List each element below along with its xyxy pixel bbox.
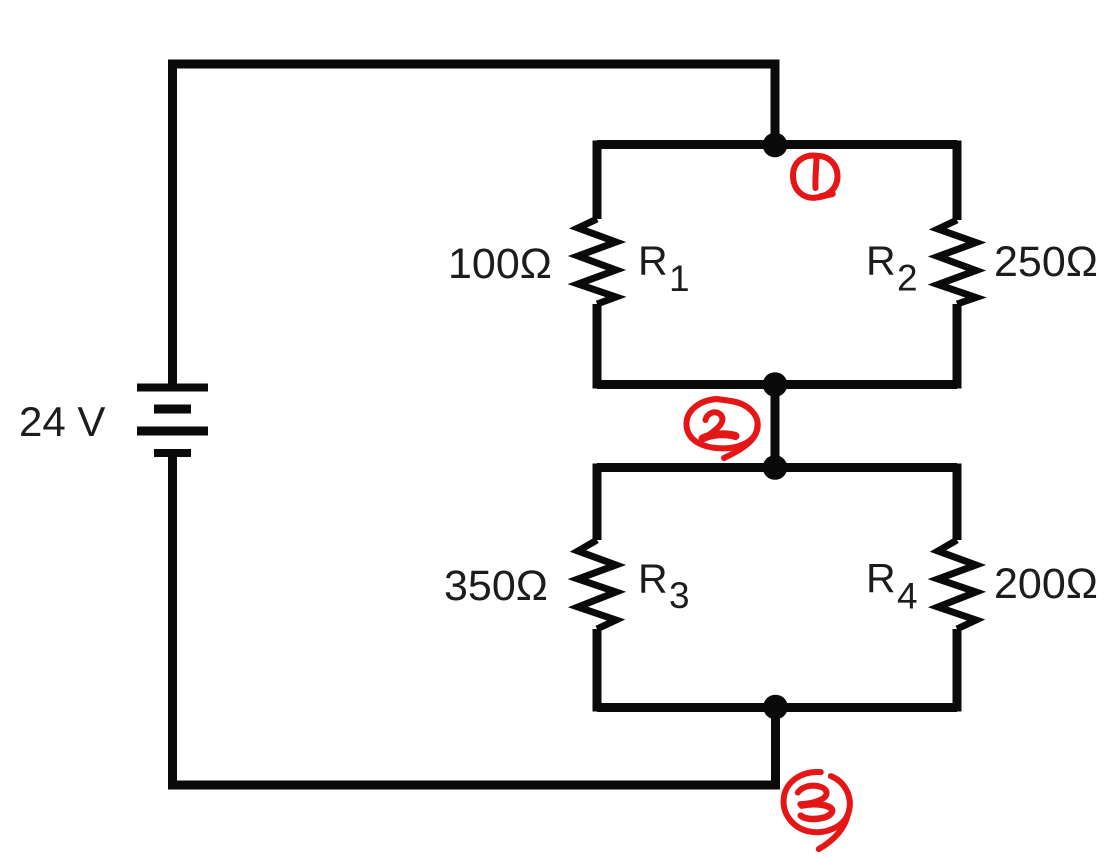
- resistor R4 zigzag: [938, 540, 976, 629]
- battery B1 plate long: [137, 427, 208, 436]
- svg-text:3: 3: [669, 575, 690, 616]
- svg-text:R: R: [866, 555, 896, 601]
- wire R3 top lead: [593, 464, 602, 541]
- wire R4 top lead: [953, 464, 962, 541]
- wire lower box bottom rail: [597, 703, 957, 712]
- node 3 red annotation circled 3: [784, 772, 850, 849]
- node 2 upper junction dot: [763, 372, 788, 397]
- svg-text:R: R: [638, 238, 668, 284]
- resistor R3 zigzag: [578, 540, 616, 629]
- resistor R1 zigzag: [578, 219, 616, 304]
- svg-text:250Ω: 250Ω: [994, 238, 1098, 286]
- wire R1 bottom lead: [593, 304, 602, 389]
- svg-text:R: R: [866, 238, 896, 284]
- resistor R2 zigzag: [938, 220, 976, 304]
- wire R1 top lead: [593, 141, 602, 220]
- svg-text:200Ω: 200Ω: [994, 560, 1098, 608]
- svg-text:R: R: [638, 556, 668, 602]
- svg-text:4: 4: [897, 576, 918, 617]
- node 2 red annotation circled 2: [686, 399, 757, 458]
- battery B1 plate short bottom: [154, 449, 191, 457]
- node 1 red annotation circled 1: [793, 156, 838, 198]
- wire top horizontal from battery to node 1 drop: [173, 64, 776, 387]
- wire bottom horizontal from battery to node 3 riser: [173, 453, 776, 785]
- svg-text:24 V: 24 V: [19, 398, 105, 445]
- wire upper box bottom rail: [597, 380, 957, 389]
- wire upper box top rail: [597, 140, 957, 149]
- wire R3 bottom lead: [593, 629, 602, 712]
- node 1 junction dot: [763, 133, 788, 158]
- wire R4 bottom lead: [953, 629, 962, 712]
- svg-text:100Ω: 100Ω: [448, 240, 552, 288]
- node 3 junction dot: [763, 695, 788, 720]
- battery B1 plate short: [154, 405, 191, 414]
- svg-text:350Ω: 350Ω: [444, 562, 548, 610]
- battery B1 plate long top: [137, 384, 208, 392]
- svg-text:2: 2: [897, 258, 918, 299]
- node 2 lower junction dot: [763, 455, 788, 480]
- wire R2 top lead: [953, 141, 962, 221]
- wire R2 bottom lead: [953, 304, 962, 389]
- wire node 2 connector: [771, 385, 780, 468]
- svg-text:1: 1: [669, 258, 690, 299]
- wire lower box top rail: [597, 463, 957, 472]
